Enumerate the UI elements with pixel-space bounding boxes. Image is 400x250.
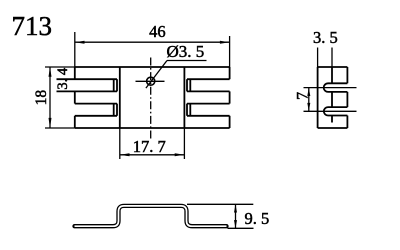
- left slot2 top line: [75, 103, 117, 105]
- dim 7 line: [308, 88, 310, 112]
- left fin2 cap: [74, 91, 76, 103]
- dim 17.7 extension right: [183, 128, 185, 159]
- left slot1 top line: [57, 78, 118, 80]
- bottom edge main view: [75, 127, 230, 129]
- side bottom: [318, 127, 348, 129]
- left notch slot1: [113, 79, 115, 91]
- dim 9.5 line: [235, 204, 237, 228]
- right fin1 cap: [229, 67, 231, 79]
- left slot2 bottom line: [75, 115, 117, 117]
- right slot1 top line: [187, 78, 230, 80]
- dim 18 extension top: [45, 66, 75, 68]
- arrow 17.7 left: [120, 153, 130, 156]
- side left wall: [317, 67, 319, 128]
- svg-text:Ø3. 5: Ø3. 5: [167, 42, 205, 61]
- hat profile sheet: [75, 206, 227, 226]
- right fin2 cap: [229, 91, 231, 103]
- dim 9.5 extension top: [187, 203, 253, 205]
- dim 46 extension left: [74, 32, 76, 67]
- left slot1 bottom line: [57, 90, 118, 92]
- dim 18 extension bottom: [45, 127, 75, 129]
- left fin3 cap: [74, 116, 76, 128]
- arrow 18 bottom: [49, 118, 52, 128]
- right slot2 top line: [187, 103, 230, 105]
- horizontal centerline through hole: [136, 80, 165, 82]
- arrow 46 left: [75, 41, 85, 44]
- right fin3 cap: [229, 116, 231, 128]
- left notch slot2: [113, 104, 115, 116]
- hook2: [324, 107, 348, 115]
- svg-text:3. 5: 3. 5: [313, 28, 338, 47]
- arrow 9.5 top: [234, 204, 237, 212]
- arrow 7 top: [307, 88, 310, 96]
- dim 9.5 extension bottom: [228, 227, 254, 229]
- svg-text:9. 5: 9. 5: [245, 209, 270, 228]
- dim 17.7 line: [120, 154, 185, 156]
- hook1: [324, 83, 348, 92]
- arrow 9.5 bottom: [234, 220, 237, 228]
- dim 17.7 extension left: [119, 128, 121, 159]
- side inner wall lower stub: [331, 116, 333, 123]
- right notch slot1: [186, 79, 188, 91]
- side right wall lower: [346, 116, 348, 129]
- hook centerline 2: [304, 110, 357, 112]
- right slot2 bottom line: [187, 115, 230, 117]
- arrow 46 right: [220, 41, 230, 44]
- hat profile inner white: [75, 206, 227, 226]
- dim 18 line: [49, 67, 51, 128]
- arrow 18 top: [49, 67, 52, 77]
- dim 46 line: [75, 41, 230, 43]
- svg-text:17. 7: 17. 7: [133, 137, 166, 156]
- side right wall upper: [346, 67, 348, 83]
- dim 3.5 side extension right: [331, 48, 333, 68]
- vertical centerline: [150, 58, 152, 141]
- hook centerline 1: [304, 87, 357, 89]
- side inner wall upper: [331, 67, 333, 83]
- leader line for hole: [146, 61, 167, 89]
- dim 46 extension right: [229, 36, 231, 67]
- svg-text:713: 713: [12, 11, 53, 41]
- hole circle: [147, 77, 155, 85]
- arrow 17.7 right: [175, 153, 185, 156]
- right notch slot2: [186, 104, 188, 116]
- svg-text:3. 4: 3. 4: [55, 67, 71, 90]
- svg-text:7: 7: [295, 92, 312, 100]
- side inner wall middle: [331, 92, 333, 107]
- svg-text:46: 46: [149, 22, 166, 41]
- side right wall middle: [346, 92, 348, 107]
- body right edge: [183, 67, 185, 128]
- side top: [318, 66, 348, 68]
- right slot1 bottom line: [187, 90, 230, 92]
- left fin1 cap: [74, 67, 76, 79]
- body left edge: [119, 67, 121, 128]
- top edge main view: [75, 66, 230, 68]
- dim 3.5 side extension left: [317, 48, 319, 68]
- arrow 7 bottom: [307, 103, 310, 111]
- svg-text:18: 18: [33, 90, 50, 106]
